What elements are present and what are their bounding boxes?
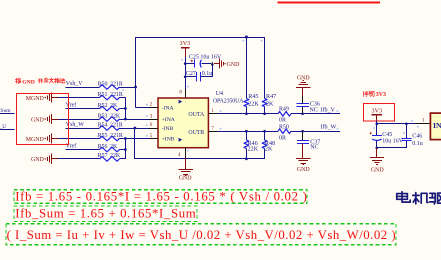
svg-text:2K: 2K [265, 146, 273, 152]
svg-text:22K: 22K [110, 153, 121, 159]
svg-text:22K: 22K [110, 113, 121, 119]
svg-text:3V3: 3V3 [180, 41, 191, 47]
svg-text:_U: _U [0, 124, 6, 130]
svg-text:GND: GND [31, 157, 45, 163]
svg-text:GND: GND [31, 117, 45, 123]
svg-text:1: 1 [422, 117, 425, 123]
svg-text:OUTA: OUTA [188, 112, 205, 118]
svg-text:C36: C36 [310, 101, 320, 107]
svg-text:R55: R55 [98, 133, 108, 139]
svg-text:3: 3 [150, 113, 153, 119]
svg-text:+INB: +INB [162, 137, 175, 143]
svg-text:NC: NC [310, 145, 318, 151]
svg-text:-INB: -INB [162, 126, 174, 132]
svg-text:C46: C46 [412, 133, 422, 139]
svg-text:GND: GND [179, 175, 193, 181]
svg-text:GND: GND [297, 167, 311, 173]
svg-text:U4: U4 [216, 91, 223, 97]
svg-text:R56: R56 [98, 144, 108, 150]
svg-text:IN: IN [433, 121, 441, 130]
svg-text:1: 1 [211, 108, 214, 114]
svg-text:221R: 221R [110, 81, 123, 87]
svg-text:7: 7 [211, 126, 214, 132]
svg-text:R52: R52 [98, 103, 108, 109]
svg-text:MGND: MGND [26, 96, 45, 102]
svg-text:4: 4 [178, 152, 181, 158]
svg-text:22K: 22K [248, 146, 259, 152]
svg-text:221R: 221R [110, 122, 123, 128]
svg-text:5: 5 [150, 133, 153, 139]
svg-text:0R: 0R [279, 136, 286, 142]
svg-text:R45: R45 [248, 94, 258, 100]
svg-text:0R: 0R [279, 118, 286, 124]
svg-text:0.1u: 0.1u [412, 141, 423, 147]
svg-text:10u 16V: 10u 16V [382, 138, 404, 144]
svg-text:Ifb_V: Ifb_V [320, 107, 335, 114]
svg-text:NC: NC [310, 108, 318, 114]
svg-text:R49: R49 [279, 107, 289, 113]
svg-text:221R: 221R [110, 133, 123, 139]
svg-text:R53: R53 [98, 113, 108, 119]
svg-text:-INA: -INA [162, 106, 175, 112]
svg-text:R54: R54 [98, 122, 108, 128]
svg-text:22K: 22K [248, 102, 259, 108]
svg-text:( I_Sum = Iu + Iv + Iw = Vsh_U: ( I_Sum = Iu + Iv + Iw = Vsh_U /0.02 + V… [7, 228, 397, 242]
svg-text:Ifb = 1.65 - 0.165*I = 1.65 -: Ifb = 1.65 - 0.165*I = 1.65 - 0.165 * ( … [15, 190, 307, 204]
svg-text:R47: R47 [266, 94, 276, 100]
svg-text:R50: R50 [279, 124, 289, 130]
svg-text:2K: 2K [110, 103, 118, 109]
svg-text:GND: GND [371, 168, 385, 174]
svg-text:GND: GND [22, 80, 35, 86]
svg-text:Vref: Vref [66, 143, 76, 150]
svg-text:8: 8 [179, 90, 182, 96]
svg-text:Ifb_W: Ifb_W [320, 124, 336, 131]
svg-text:2: 2 [150, 102, 153, 108]
svg-text:221R: 221R [110, 92, 123, 98]
svg-text:GND: GND [297, 76, 311, 82]
svg-text:OUTB: OUTB [188, 130, 204, 136]
svg-text:C27: C27 [186, 71, 196, 77]
svg-text:R51: R51 [98, 92, 108, 98]
svg-text:Ifb_Sum = 1.65 + 0.165*I_Sum: Ifb_Sum = 1.65 + 0.165*I_Sum [15, 207, 196, 221]
svg-text:2K: 2K [266, 102, 274, 108]
svg-text:R50: R50 [98, 81, 108, 87]
svg-text:+INA: +INA [162, 117, 176, 123]
svg-text:Vsh_V: Vsh_V [66, 81, 83, 87]
svg-text:3V3: 3V3 [376, 92, 386, 98]
svg-text:GND: GND [227, 62, 241, 68]
svg-text:3V3: 3V3 [372, 108, 383, 114]
svg-text:2K: 2K [110, 144, 118, 150]
svg-text:MGND: MGND [26, 137, 45, 143]
svg-text:6: 6 [150, 122, 153, 128]
svg-text:OPA2350UA: OPA2350UA [213, 99, 244, 105]
svg-text:C25 10u 16V: C25 10u 16V [189, 54, 222, 60]
svg-text:C45: C45 [382, 132, 392, 138]
svg-text:Vref: Vref [66, 102, 76, 109]
